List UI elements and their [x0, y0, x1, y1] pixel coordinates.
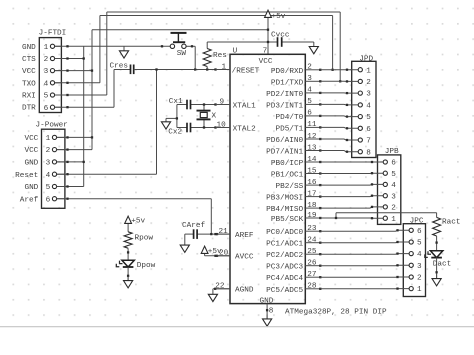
junction pin stub — [319, 207, 321, 209]
svg-text:6: 6 — [307, 110, 312, 118]
capacitor CAref — [194, 229, 198, 239]
op IC U: ATmega328P body — [230, 54, 305, 303]
svg-text:VCC: VCC — [22, 68, 36, 76]
svg-text:1: 1 — [46, 135, 51, 143]
junction — [66, 106, 68, 108]
wire CTS to GND vertical — [55, 58, 84, 60]
svg-text:23: 23 — [307, 225, 317, 233]
IC pin 16 PB2/SS — [276, 179, 321, 191]
svg-text:2: 2 — [44, 56, 49, 64]
svg-text:PC2/ADC2: PC2/ADC2 — [266, 252, 303, 260]
junction SCK — [335, 217, 337, 219]
svg-text:Aref: Aref — [20, 196, 39, 204]
svg-text:PD3/INT1: PD3/INT1 — [266, 102, 303, 110]
svg-text:24: 24 — [307, 237, 317, 245]
junction pin stub — [319, 80, 321, 82]
capacitor Cx2 — [187, 123, 191, 133]
JPB pin 3 wire — [320, 195, 383, 198]
JPD pin 4 — [358, 103, 362, 107]
LED Dact — [425, 251, 443, 258]
junction — [396, 229, 398, 231]
svg-text:PD1/TXD: PD1/TXD — [271, 79, 304, 87]
svg-text:PB2/SS: PB2/SS — [276, 183, 304, 191]
ground (AGND) — [208, 289, 217, 302]
IC pin 18 PB4/MISO — [266, 202, 320, 214]
+5v supply (Rpow) — [127, 223, 129, 232]
wire crystal left vertical — [176, 105, 178, 128]
svg-text:J-FTDI: J-FTDI — [39, 29, 67, 37]
switch SW (reset pushbutton) — [171, 33, 196, 70]
wire J-Power.3 GND — [57, 161, 84, 163]
svg-text:PD2/INT0: PD2/INT0 — [266, 91, 303, 99]
wire TXO vertical — [99, 16, 101, 83]
wire Cx1 left — [177, 104, 187, 106]
wire Cvcc to ground — [282, 41, 314, 43]
junction — [346, 80, 348, 82]
junction — [346, 115, 348, 117]
svg-text:6: 6 — [44, 105, 49, 113]
junction Dpow cathode — [127, 275, 129, 277]
svg-text:VCC: VCC — [259, 58, 273, 66]
wire CAref left — [185, 233, 194, 235]
sheet boundary — [0, 326, 474, 328]
svg-text:1: 1 — [44, 44, 49, 52]
svg-text:2: 2 — [366, 79, 371, 87]
junction — [267, 29, 269, 31]
wire +5v vertical — [91, 30, 93, 150]
svg-text:17: 17 — [307, 190, 317, 198]
svg-text:+5v: +5v — [272, 13, 286, 21]
svg-text:9: 9 — [220, 98, 225, 106]
svg-text:GND: GND — [24, 184, 38, 192]
svg-text:18: 18 — [307, 202, 317, 210]
wire +5v down to VCC pin 7 — [267, 18, 269, 55]
ground (CAref) — [180, 234, 189, 252]
svg-text:GND: GND — [24, 160, 38, 168]
junction pin stub — [319, 242, 321, 244]
junction — [216, 233, 218, 235]
svg-text:6: 6 — [366, 126, 371, 134]
+5v supply (VCC) — [265, 10, 272, 17]
junction — [396, 276, 398, 278]
svg-text:JPC: JPC — [410, 217, 424, 225]
JPD pin 7 wire — [320, 139, 358, 140]
svg-text:20: 20 — [219, 250, 229, 258]
svg-text:15: 15 — [307, 167, 317, 175]
svg-text:PC4/ADC4: PC4/ADC4 — [266, 275, 303, 283]
svg-text:8: 8 — [366, 149, 371, 157]
svg-text:Cx2: Cx2 — [168, 128, 182, 136]
JPB pin 4 wire — [320, 183, 383, 186]
JPC pin 2 — [409, 275, 413, 279]
svg-text:2: 2 — [46, 147, 51, 155]
junction pin stub — [319, 161, 321, 163]
junction pin stub — [319, 92, 321, 94]
junction — [214, 126, 216, 128]
junction pin stub — [319, 172, 321, 174]
J-Power pin 3 GND — [57, 161, 65, 163]
junction pin stub — [319, 195, 321, 197]
JPD pin 1 wire — [320, 69, 358, 71]
junction on /RESET — [66, 173, 68, 175]
wire J-FTDI.3 VCC — [55, 70, 92, 72]
junction Dpow anode — [127, 251, 129, 253]
wire ground branch — [166, 117, 177, 119]
IC pin 23 PC0/ADC0 — [266, 225, 320, 237]
svg-text:5: 5 — [307, 98, 312, 106]
svg-text:19: 19 — [307, 212, 317, 220]
pin 22 stub — [216, 288, 231, 290]
JPC pin 3 — [409, 263, 413, 267]
JPD pin 6 — [358, 126, 362, 130]
svg-text:XTAL1: XTAL1 — [233, 103, 256, 111]
svg-text:U: U — [233, 48, 238, 56]
svg-text:22: 22 — [215, 283, 225, 291]
resistor Ract — [433, 217, 441, 236]
svg-text:21: 21 — [219, 228, 229, 236]
svg-text:CAref: CAref — [182, 222, 205, 230]
junction pin stub — [319, 288, 321, 290]
svg-text:PD0/RXD: PD0/RXD — [271, 68, 304, 76]
junction Dact anode — [435, 241, 437, 243]
junction pin stub — [319, 253, 321, 255]
svg-text:J-Power: J-Power — [36, 122, 68, 130]
wire RXI to PD1 horizontal — [107, 11, 340, 13]
wire RXI vertical — [106, 12, 108, 95]
svg-text:4: 4 — [391, 182, 396, 190]
junction — [371, 217, 373, 219]
svg-text:8: 8 — [269, 308, 274, 316]
junction pin21 — [214, 233, 216, 235]
junction pin stub — [319, 184, 321, 186]
svg-text:PD7/AIN1: PD7/AIN1 — [266, 149, 303, 157]
wire AREF pin 21 — [197, 233, 230, 235]
junction — [66, 82, 68, 84]
wire J-FTDI.5 RXI — [55, 94, 107, 96]
svg-text:PB0/ICP: PB0/ICP — [271, 160, 304, 168]
junction pin stub — [319, 126, 321, 128]
junction — [203, 103, 205, 105]
capacitor Cx1 — [187, 100, 191, 110]
JPB pin 6 wire — [320, 161, 383, 163]
connector JPC — [403, 224, 425, 297]
IC pin 25 PC2/ADC2 — [266, 248, 320, 260]
svg-text:2: 2 — [391, 205, 396, 213]
ground (pin 8) — [263, 315, 272, 327]
J-Power pin 6 Aref — [57, 198, 65, 200]
svg-text:5: 5 — [44, 93, 49, 101]
junction — [91, 69, 93, 71]
wire AVCC pin 20 — [205, 255, 230, 257]
wire down to PD0 — [332, 16, 334, 70]
svg-text:Rpow: Rpow — [135, 235, 154, 243]
svg-text:3: 3 — [44, 68, 49, 76]
wire Cx2 left — [177, 127, 187, 129]
svg-text:AGND: AGND — [235, 287, 254, 295]
wire Ract to Dact — [436, 236, 438, 251]
J-Power pin 2 VCC — [57, 149, 65, 151]
IC pin 24 PC1/ADC1 — [266, 237, 320, 249]
junction — [371, 172, 373, 174]
pin 9 stub — [216, 104, 231, 106]
wire Res top lead — [206, 42, 208, 49]
junction node PD1 — [339, 80, 341, 82]
junction — [66, 161, 68, 163]
svg-text:PC3/ADC3: PC3/ADC3 — [266, 264, 303, 272]
svg-text:11: 11 — [307, 121, 317, 129]
JPC pin 2 wire — [320, 276, 409, 278]
svg-text:AREF: AREF — [235, 232, 254, 240]
junction pin stub — [319, 103, 321, 105]
junction pin stub — [319, 149, 321, 151]
junction — [83, 161, 85, 163]
junction pin stub — [319, 115, 321, 117]
junction node PD0 — [331, 69, 333, 71]
wire J-Power.5 GND — [57, 186, 84, 188]
JPD pin 4 wire — [320, 103, 358, 106]
JPC pin 6 wire — [320, 229, 409, 232]
wire Dpow cathode — [127, 267, 129, 281]
junction — [371, 206, 373, 208]
svg-text:/RESET: /RESET — [232, 67, 260, 75]
JPD pin 6 wire — [320, 126, 358, 129]
pin 21 stub — [216, 233, 231, 235]
junction — [66, 136, 68, 138]
svg-text:2: 2 — [307, 64, 312, 72]
wire XTAL2 pin 10 — [191, 127, 231, 129]
junction — [371, 161, 373, 163]
JPC pin 5 — [409, 240, 413, 244]
junction Dact cathode — [435, 271, 437, 273]
junction — [371, 195, 373, 197]
J-FTDI pin 3 VCC — [55, 70, 62, 72]
svg-text:DTR: DTR — [22, 105, 36, 113]
JPB pin 5 wire — [320, 172, 383, 174]
wire +5v horizontal — [92, 29, 268, 31]
svg-text:4: 4 — [44, 80, 49, 88]
junction — [267, 41, 269, 43]
junction — [66, 57, 68, 59]
JPC pin 5 wire — [320, 241, 409, 244]
svg-text:SW: SW — [177, 50, 187, 58]
svg-text:Ract: Ract — [442, 218, 461, 226]
connector J-Power — [42, 129, 65, 208]
junction — [83, 57, 85, 59]
wire down to PD1 — [339, 12, 341, 81]
svg-text:+5v: +5v — [131, 217, 145, 225]
svg-text:JPB: JPB — [385, 148, 399, 156]
pin 20 stub — [216, 255, 231, 257]
JPD pin 5 — [358, 115, 362, 119]
svg-text:27: 27 — [307, 271, 317, 279]
svg-text:PC5/ADC5: PC5/ADC5 — [266, 287, 303, 295]
junction — [66, 94, 68, 96]
JPD pin 1 — [358, 68, 362, 72]
JPB pin 1 — [383, 216, 387, 220]
svg-text:Cvcc: Cvcc — [271, 32, 290, 40]
JPC pin 6 — [409, 228, 413, 232]
JPB pin 3 — [383, 194, 387, 198]
wire TXO to PD0 horizontal — [100, 15, 333, 17]
IC pin 27 PC4/ADC4 — [266, 271, 320, 283]
svg-text:6: 6 — [417, 228, 422, 236]
IC pin 15 PB1/OC1 — [271, 167, 320, 179]
IC pin 6 PD4/T0 — [276, 110, 321, 122]
wire XTAL1 pin 9 — [191, 104, 231, 106]
junction — [214, 103, 216, 105]
junction on /RESET — [214, 68, 216, 70]
JPC pin 1 wire — [320, 288, 409, 290]
JPB pin 2 wire — [320, 207, 383, 208]
svg-text:1: 1 — [417, 286, 422, 294]
J-Power pin 1 VCC — [57, 136, 65, 138]
ground (Cvcc) — [309, 42, 318, 54]
JPD pin 5 wire — [320, 115, 358, 118]
svg-text:CTS: CTS — [22, 56, 36, 64]
svg-text:ATMega328P, 28 PIN DIP: ATMega328P, 28 PIN DIP — [285, 308, 387, 316]
junction — [203, 126, 205, 128]
wire Rpow to Dpow — [127, 248, 129, 260]
IC pin 14 PB0/ICP — [271, 156, 320, 168]
svg-text:VCC: VCC — [24, 147, 38, 155]
wire GND vertical — [83, 46, 85, 186]
wire GND: J-FTDI.1 to SW — [55, 45, 171, 47]
JPD pin 2 — [358, 79, 362, 83]
svg-text:GND: GND — [22, 44, 36, 52]
connector JPD — [352, 61, 376, 157]
pin 1 stub — [216, 69, 231, 71]
svg-text:3: 3 — [417, 263, 422, 271]
wire J-Power.6 Aref — [57, 198, 212, 200]
junction — [66, 148, 68, 150]
svg-text:TXO: TXO — [22, 80, 36, 88]
JPB pin 1 wire — [320, 217, 383, 219]
svg-text:Dpow: Dpow — [137, 262, 156, 270]
junction on /RESET — [155, 68, 157, 70]
svg-text:PB3/MOSI: PB3/MOSI — [266, 195, 303, 203]
J-FTDI pin 6 DTR — [55, 106, 62, 108]
svg-text:PD4/T0: PD4/T0 — [276, 114, 304, 122]
junction — [210, 233, 212, 235]
junction — [346, 69, 348, 71]
wire J-FTDI.4 TXO — [55, 82, 100, 84]
IC pin 11 PD5/T1 — [276, 121, 321, 133]
JPC pin 4 — [409, 252, 413, 256]
wire J-Power.2 VCC — [57, 149, 92, 151]
capacitor Cres — [131, 65, 134, 75]
svg-text:14: 14 — [307, 156, 317, 164]
svg-text:3: 3 — [391, 193, 396, 201]
svg-text:5: 5 — [417, 240, 422, 248]
svg-text:Res: Res — [213, 52, 227, 60]
svg-text:4: 4 — [307, 87, 312, 95]
junction — [396, 241, 398, 243]
svg-text:26: 26 — [307, 260, 317, 268]
svg-text:16: 16 — [307, 179, 317, 187]
IC pin 8 GND — [266, 304, 268, 319]
resistor Rpow — [124, 232, 132, 248]
wire J-FTDI.6 DTR — [55, 106, 114, 108]
svg-text:4: 4 — [366, 103, 371, 111]
junction — [66, 185, 68, 187]
ground (reset switch rail) — [119, 46, 128, 58]
JPB pin 4 — [383, 182, 387, 186]
svg-text:RXI: RXI — [22, 93, 36, 101]
IC pin 17 PB3/MOSI — [266, 190, 320, 202]
junction — [91, 136, 93, 138]
junction — [396, 264, 398, 266]
IC pin 13 PD7/AIN1 — [266, 144, 320, 156]
IC pin 2 PD0/RXD — [271, 64, 320, 76]
LED Dpow — [116, 260, 134, 267]
junction — [346, 139, 348, 141]
J-FTDI pin 1 GND — [55, 45, 62, 47]
svg-text:4: 4 — [417, 251, 422, 259]
svg-text:3: 3 — [46, 160, 51, 168]
wire Ract top lead — [436, 213, 438, 218]
ground (Dact) — [432, 274, 441, 286]
svg-text:PD5/T1: PD5/T1 — [276, 125, 304, 133]
+5v arrow (Rpow) — [125, 216, 132, 223]
svg-text:X: X — [212, 113, 217, 121]
SW contact left — [170, 44, 174, 48]
junction — [161, 45, 163, 47]
junction — [396, 252, 398, 254]
+5v supply (AVCC) — [204, 253, 206, 256]
svg-text:12: 12 — [307, 133, 317, 141]
IC pin 3 PD1/TXD — [271, 75, 320, 87]
wire SCK branch vertical — [335, 213, 337, 218]
IC pin 12 PD6/AIN0 — [266, 133, 320, 145]
junction pin stub — [319, 217, 321, 219]
J-FTDI pin 2 CTS — [55, 58, 62, 60]
junction — [66, 69, 68, 71]
JPD pin 8 — [358, 150, 362, 154]
svg-text:XTAL2: XTAL2 — [233, 126, 256, 134]
JPB pin 2 — [383, 205, 387, 209]
svg-text:2: 2 — [417, 275, 422, 283]
wire Res bottom lead — [206, 67, 208, 70]
svg-text:1: 1 — [366, 67, 371, 75]
SW contact right — [182, 44, 186, 48]
IC pin 4 PD2/INT0 — [266, 87, 320, 99]
crystal X — [197, 105, 211, 128]
JPC pin 1 — [409, 287, 413, 291]
junction pin 8 — [266, 309, 268, 311]
svg-text:5: 5 — [366, 114, 371, 122]
wire J-Power.4 Reset — [57, 173, 157, 175]
svg-text:4: 4 — [46, 172, 51, 180]
svg-text:PC0/ADC0: PC0/ADC0 — [266, 229, 303, 237]
junction — [214, 288, 216, 290]
JPD pin 3 — [358, 91, 362, 95]
svg-text:PB1/OC1: PB1/OC1 — [271, 172, 304, 180]
J-Power pin 4 Reset — [57, 173, 65, 175]
JPD pin 7 — [358, 138, 362, 142]
junction pin stub — [319, 265, 321, 267]
svg-text:13: 13 — [307, 144, 317, 152]
svg-text:3: 3 — [307, 75, 312, 83]
svg-text:Cres: Cres — [110, 63, 129, 71]
junction on /RESET — [206, 68, 208, 70]
JPD pin 2 wire — [320, 80, 358, 82]
wire +5v to Cvcc — [207, 41, 277, 43]
IC pin 5 PD3/INT1 — [266, 98, 320, 110]
svg-text:1: 1 — [391, 216, 396, 224]
junction — [396, 287, 398, 289]
junction — [216, 255, 218, 257]
resistor Res — [203, 49, 211, 67]
